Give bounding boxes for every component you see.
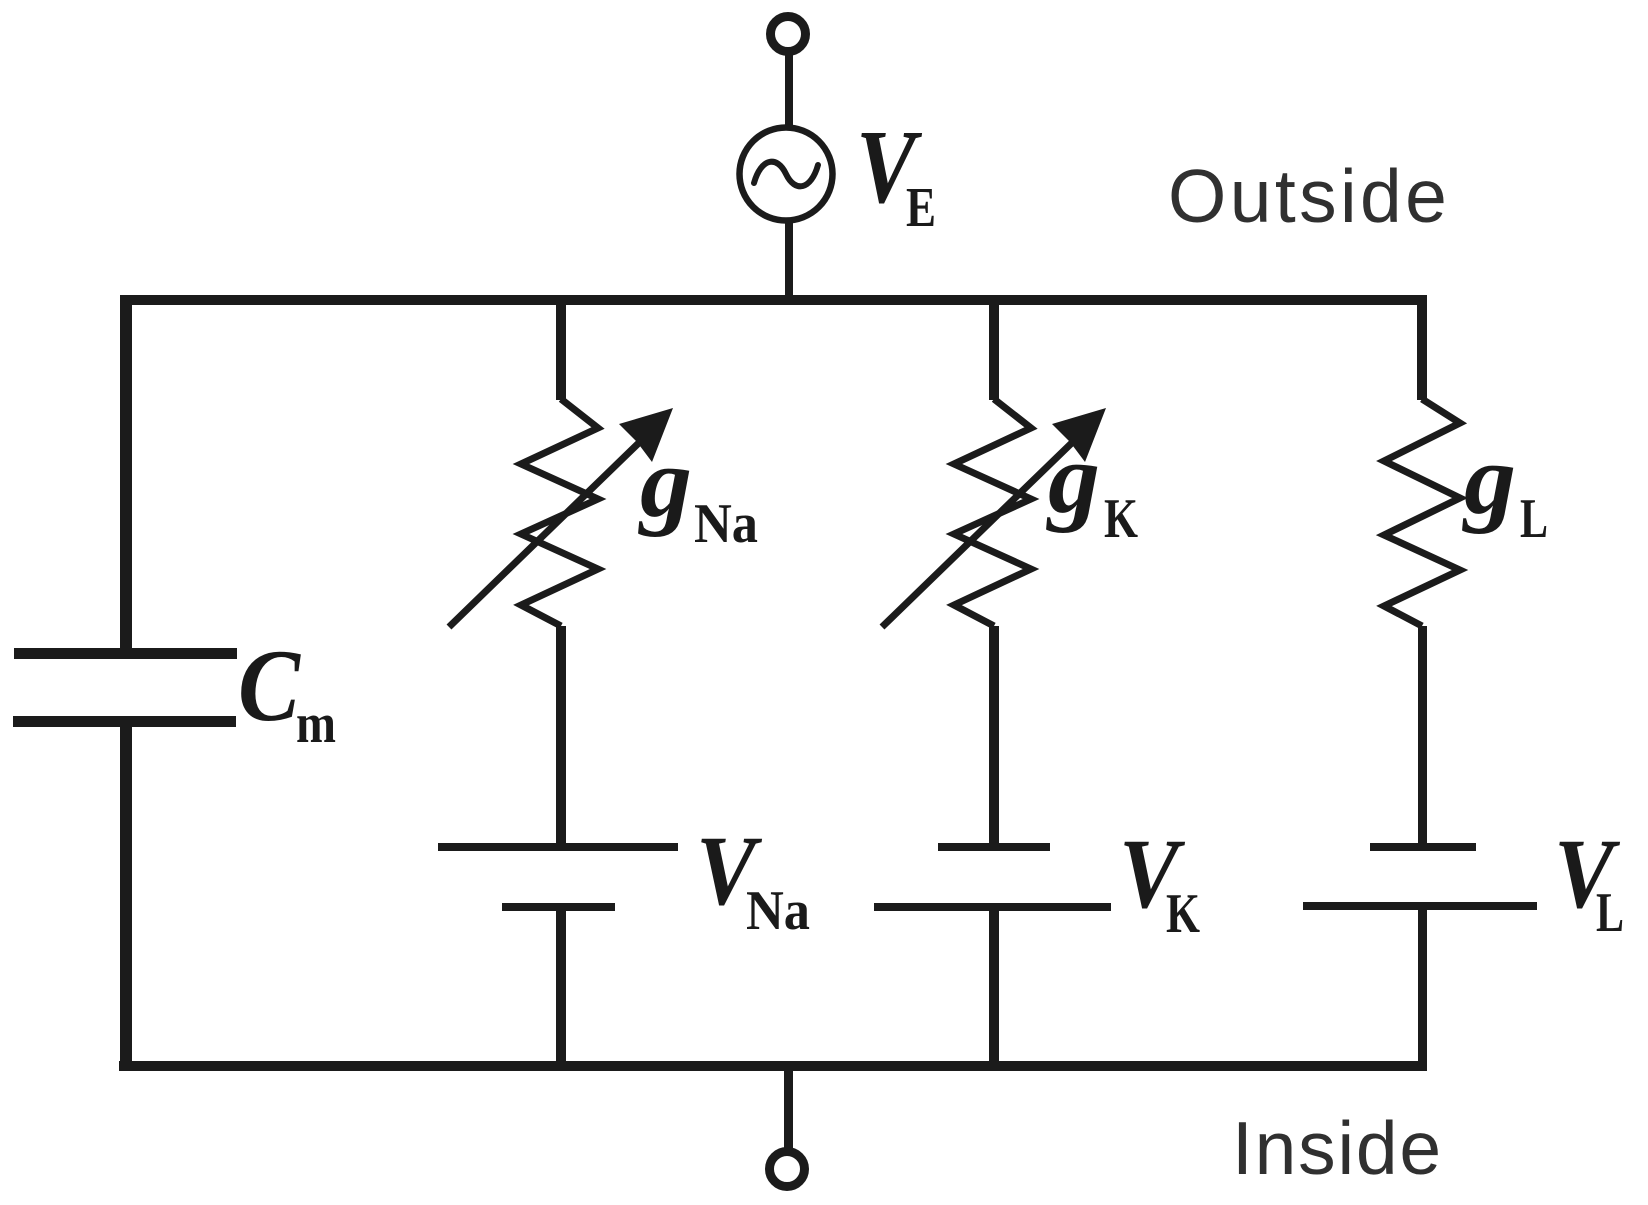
terminal bottom (770, 1152, 805, 1187)
wire gL middle (1418, 626, 1427, 845)
battery VK long plate (874, 903, 1111, 911)
left rail upper (120, 295, 132, 653)
resistor gNa zigzag (521, 399, 598, 626)
svg-text:E: E (906, 177, 936, 239)
svg-text:Na: Na (694, 493, 758, 555)
right rail upper wire gL (1417, 295, 1427, 400)
wire gK bottom (989, 911, 999, 1063)
wire bottom terminal (784, 1071, 793, 1151)
wire gNa top (556, 295, 566, 400)
wire source to top rail (785, 219, 793, 299)
wire gNa middle (556, 626, 566, 845)
svg-text:g: g (1046, 423, 1100, 534)
svg-text:K: K (1166, 883, 1200, 945)
wire gK middle (989, 626, 999, 845)
terminal top (771, 17, 806, 52)
svg-text:L: L (1520, 488, 1548, 550)
svg-text:K: K (1104, 488, 1138, 550)
source VE (AC) (740, 128, 833, 221)
svg-text:Outside: Outside (1168, 154, 1450, 238)
arrow gK shaft (882, 434, 1081, 627)
battery VK short plate (938, 843, 1050, 851)
svg-text:Inside: Inside (1232, 1106, 1443, 1190)
resistor gK zigzag (954, 399, 1031, 626)
battery VL short plate (1370, 843, 1476, 851)
resistor gL zigzag (1384, 399, 1460, 626)
top rail (121, 295, 1427, 305)
svg-text:m: m (296, 693, 336, 755)
svg-text:L: L (1596, 882, 1624, 944)
capacitor Cm top plate (14, 648, 237, 659)
arrow gNa head (619, 408, 673, 462)
svg-text:g: g (1462, 424, 1516, 535)
capacitor Cm bottom plate (13, 716, 236, 727)
left rail lower (120, 727, 132, 1071)
battery VNa long plate (438, 843, 678, 851)
wire gNa bottom (556, 911, 566, 1063)
battery VNa short plate (502, 903, 615, 911)
wire gL bottom (1418, 910, 1427, 1063)
bottom rail (119, 1061, 1427, 1071)
wire top terminal to source (785, 53, 793, 130)
arrow gK head (1052, 408, 1106, 462)
svg-text:g: g (638, 427, 692, 538)
wire gK top (989, 295, 999, 400)
svg-text:Na: Na (746, 880, 810, 942)
sine wave (754, 162, 818, 187)
battery VL long plate (1303, 902, 1537, 910)
svg-text:C: C (238, 629, 301, 743)
arrow gNa shaft (449, 434, 648, 627)
